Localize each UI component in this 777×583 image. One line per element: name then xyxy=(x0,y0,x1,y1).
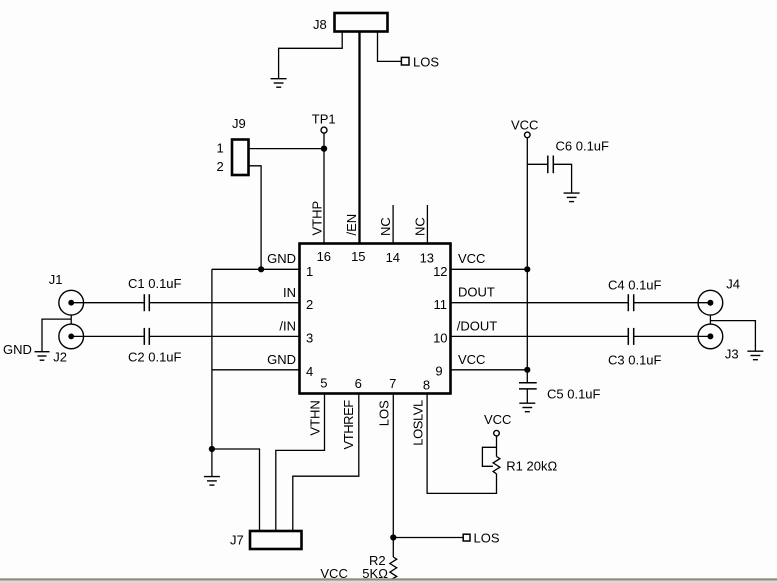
svg-text:16: 16 xyxy=(317,249,331,264)
wire VCC pin9 xyxy=(451,369,527,371)
wire J9 pin1 to TP1 node xyxy=(249,148,324,150)
svg-text:DOUT: DOUT xyxy=(458,285,495,300)
capacitor C3 xyxy=(628,328,633,345)
connector J2 xyxy=(59,324,84,349)
svg-text:1: 1 xyxy=(306,264,313,279)
svg-text:J4: J4 xyxy=(726,277,740,292)
node TP1 junction dot xyxy=(321,145,327,151)
svg-text:5: 5 xyxy=(320,376,327,391)
svg-text:10: 10 xyxy=(433,331,447,346)
connector J3 xyxy=(698,324,723,349)
capacitor C6 xyxy=(548,156,554,174)
wire IN: J1 to C1 xyxy=(71,302,144,304)
capacitor C5 xyxy=(519,383,537,389)
svg-text:13: 13 xyxy=(420,251,434,266)
svg-text:J1: J1 xyxy=(49,272,63,287)
ground (right of J3) xyxy=(747,351,763,360)
svg-text:2: 2 xyxy=(306,297,313,312)
svg-text:GND: GND xyxy=(3,342,32,357)
terminal LOS (bottom) xyxy=(463,534,470,541)
svg-text:11: 11 xyxy=(434,297,448,312)
IC U1 body xyxy=(300,244,451,394)
svg-text:LOSLVL: LOSLVL xyxy=(410,400,425,446)
wire /IN: J2 to C2 xyxy=(71,335,144,337)
resistor R2 xyxy=(392,538,394,558)
terminal VCC (top right) xyxy=(525,132,531,138)
wire bus junction to J7 pin xyxy=(212,449,260,531)
wire shells to ground (right) xyxy=(710,321,755,351)
wire C5 to ground xyxy=(526,389,528,403)
ground (C5) xyxy=(519,403,535,412)
wire C1 to pin 2 xyxy=(149,302,299,304)
svg-text:VCC: VCC xyxy=(458,251,485,266)
capacitor C4 xyxy=(628,294,633,311)
svg-text:C3 0.1uF: C3 0.1uF xyxy=(608,352,662,367)
connector J7 xyxy=(250,531,302,549)
wire C6 to ground xyxy=(553,164,571,193)
wire C2 to pin 3 xyxy=(149,335,299,337)
wire VCC vertical xyxy=(526,138,528,383)
svg-text:15: 15 xyxy=(351,249,365,264)
svg-text:VCC: VCC xyxy=(484,412,511,427)
svg-text:GND: GND xyxy=(267,352,296,367)
ground (C6) xyxy=(564,193,580,202)
ground (left of J2) xyxy=(35,352,50,361)
wire DOUT pin11 to C4 xyxy=(451,302,628,304)
node LOS junction xyxy=(390,534,396,540)
testpoint TP1 xyxy=(321,127,327,133)
node VCC/pin12 junction xyxy=(524,266,530,272)
svg-text:9: 9 xyxy=(435,364,442,379)
wire VTHREF: pin6 to J7 xyxy=(293,394,359,531)
svg-text:3: 3 xyxy=(306,331,313,346)
node junction on GND wire xyxy=(258,266,264,272)
wire J8 right to LOS terminal xyxy=(378,33,402,62)
connector J1 xyxy=(59,290,84,315)
node GND bus junction dot xyxy=(209,446,215,452)
ground (top left, under J8) xyxy=(271,79,287,88)
wire VTHN: pin5 to J7 xyxy=(276,394,325,531)
svg-text:R1 20kΩ: R1 20kΩ xyxy=(506,459,557,474)
wire /EN net: J8 to pin 15 (thick) xyxy=(358,33,360,244)
R1 wiper loop xyxy=(482,447,496,466)
svg-text:C1 0.1uF: C1 0.1uF xyxy=(128,276,182,291)
wire shells to ground xyxy=(42,319,71,351)
wire GND vertical bus xyxy=(211,269,213,449)
wire bus junction to ground xyxy=(211,449,213,476)
svg-text:8: 8 xyxy=(423,377,430,392)
capacitor C2 xyxy=(144,328,149,345)
connector J8 xyxy=(335,13,388,32)
connector J4 xyxy=(698,290,723,315)
svg-text:VTHN: VTHN xyxy=(308,400,323,435)
svg-text:6: 6 xyxy=(355,376,362,391)
wire J1/J2 shell link xyxy=(70,315,72,324)
wire J4/J3 shell link xyxy=(709,315,711,324)
svg-text:C6 0.1uF: C6 0.1uF xyxy=(556,139,610,154)
wire J8 left to ground xyxy=(279,33,343,79)
svg-text:J7: J7 xyxy=(230,533,244,548)
svg-text:VTHP: VTHP xyxy=(309,201,324,236)
wire /DOUT pin10 to C3 xyxy=(451,335,628,337)
connector J9 xyxy=(232,140,249,176)
svg-text:VCC: VCC xyxy=(458,352,485,367)
svg-text:/IN: /IN xyxy=(279,319,296,334)
svg-text:14: 14 xyxy=(386,250,400,265)
svg-text:J8: J8 xyxy=(313,17,327,32)
svg-text:C4 0.1uF: C4 0.1uF xyxy=(608,278,662,293)
wire C3 to J3 xyxy=(634,335,711,337)
terminal VCC (R1) xyxy=(494,430,500,436)
wire LOS junction to terminal xyxy=(393,537,463,539)
svg-text:C2 0.1uF: C2 0.1uF xyxy=(128,350,182,365)
wire J9 pin2 to GND net xyxy=(249,166,261,267)
node VCC/pin9 junction xyxy=(524,367,530,373)
wire VTHP net: TP1 to pin 16 xyxy=(323,149,325,244)
wire LOS: pin7 down xyxy=(392,394,394,538)
svg-text:J9: J9 xyxy=(232,116,246,131)
svg-text:C5 0.1uF: C5 0.1uF xyxy=(547,386,601,401)
svg-text:12: 12 xyxy=(433,264,447,279)
pin 14 NC stub xyxy=(392,205,394,244)
svg-text:LOS: LOS xyxy=(474,531,500,546)
wire VCC pin12 xyxy=(451,268,527,270)
svg-text:NC: NC xyxy=(412,217,427,236)
svg-text:VTHREF: VTHREF xyxy=(341,400,356,450)
svg-text:IN: IN xyxy=(283,285,296,300)
svg-text:J2: J2 xyxy=(53,350,67,365)
svg-text:2: 2 xyxy=(217,159,224,174)
svg-text:VCC: VCC xyxy=(511,117,538,132)
capacitor C1 xyxy=(144,294,149,311)
svg-text:TP1: TP1 xyxy=(312,112,336,127)
wire GND pin1 to bus xyxy=(212,268,300,270)
ground (left bus) xyxy=(204,477,220,486)
svg-text:GND: GND xyxy=(267,251,296,266)
svg-text:1: 1 xyxy=(217,140,224,155)
resistor R1 (variable) xyxy=(496,436,498,457)
svg-text:LOS: LOS xyxy=(413,55,439,70)
svg-text:LOS: LOS xyxy=(376,400,391,426)
wire GND pin4 to bus xyxy=(212,369,300,371)
svg-text:/EN: /EN xyxy=(344,214,359,236)
terminal LOS (top) xyxy=(401,57,409,65)
wire VCC to C6 xyxy=(527,163,548,165)
window bottom border xyxy=(0,578,777,580)
wire C4 to J4 xyxy=(634,302,711,304)
svg-text:7: 7 xyxy=(389,376,396,391)
svg-text:/DOUT: /DOUT xyxy=(457,319,498,334)
svg-text:4: 4 xyxy=(306,364,313,379)
svg-text:NC: NC xyxy=(378,217,393,236)
pin 13 NC stub xyxy=(426,205,428,244)
wire LOSLVL: pin8 to R1 xyxy=(427,394,496,493)
svg-text:J3: J3 xyxy=(725,347,739,362)
